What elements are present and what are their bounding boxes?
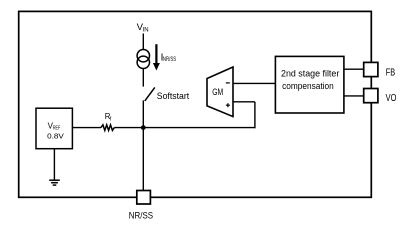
svg-text:NR/SS: NR/SS	[163, 57, 176, 63]
svg-text:compensation: compensation	[282, 81, 334, 92]
svg-text:NR/SS: NR/SS	[129, 211, 153, 220]
svg-text:f: f	[110, 117, 112, 123]
svg-text:FB: FB	[386, 67, 396, 78]
svg-text:VO: VO	[386, 93, 397, 104]
svg-text:Softstart: Softstart	[157, 91, 190, 101]
svg-text:GM: GM	[212, 87, 223, 97]
svg-text:0.8V: 0.8V	[47, 132, 64, 141]
svg-text:2nd stage filter: 2nd stage filter	[281, 69, 340, 80]
svg-text:IN: IN	[143, 27, 149, 33]
